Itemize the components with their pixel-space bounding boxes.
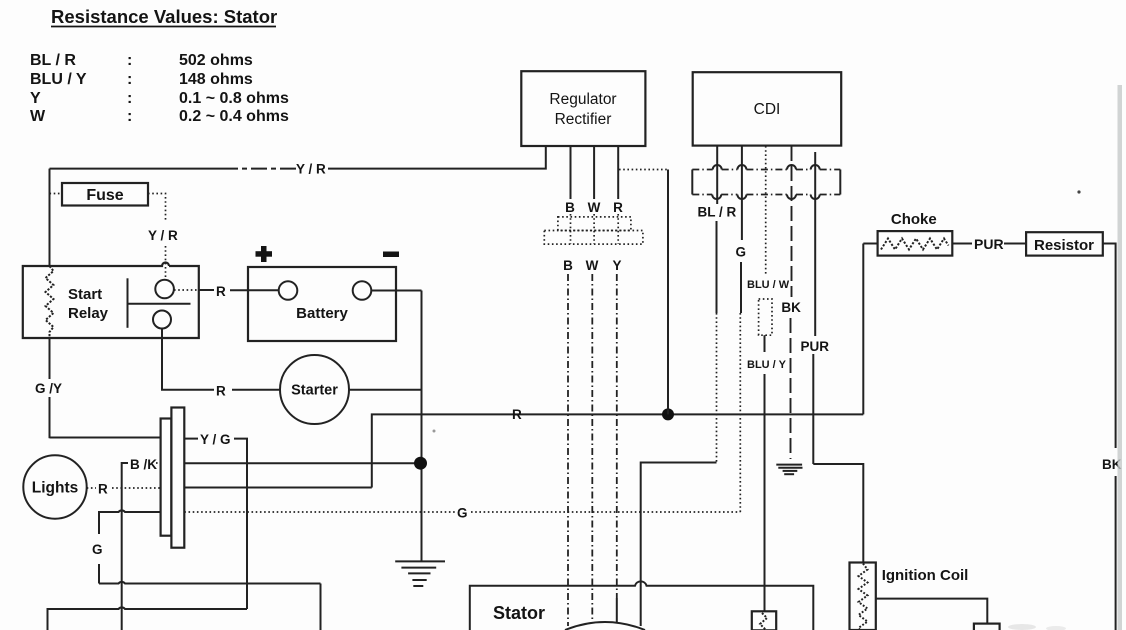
lights L1 <box>23 455 160 518</box>
svg-text:BK: BK <box>781 300 801 315</box>
wire regulator R dotted branch <box>619 170 668 415</box>
stator box <box>470 581 814 630</box>
CDI U2 <box>693 72 842 145</box>
svg-text:PUR: PUR <box>974 236 1004 252</box>
svg-text:0.1 ~ 0.8 ohms: 0.1 ~ 0.8 ohms <box>179 90 289 107</box>
svg-text:B: B <box>563 258 573 273</box>
svg-text:R: R <box>216 384 226 399</box>
svg-text:Rectifier: Rectifier <box>555 111 612 128</box>
label BK cdi <box>781 300 801 459</box>
svg-text:W: W <box>588 200 601 215</box>
svg-text:Y: Y <box>612 258 621 273</box>
svg-text:BLU / W: BLU / W <box>747 279 790 291</box>
svg-text:Starter: Starter <box>291 383 338 399</box>
svg-text:G /Y: G /Y <box>35 381 62 396</box>
svg-text:Y: Y <box>30 90 41 107</box>
wire Y/G <box>48 432 248 630</box>
svg-text:R: R <box>613 200 623 215</box>
svg-text:R: R <box>98 482 108 497</box>
CDI connector band <box>692 165 840 199</box>
key switch connector <box>161 408 185 548</box>
svg-text:Start: Start <box>68 286 102 303</box>
svg-text:W: W <box>30 108 46 125</box>
svg-text:Fuse: Fuse <box>86 187 123 204</box>
svg-text:148 ohms: 148 ohms <box>179 71 253 88</box>
svg-text::: : <box>127 71 132 88</box>
svg-text:W: W <box>586 258 599 273</box>
regulator rectifier U1 <box>521 71 645 146</box>
stator pickup component <box>752 611 776 630</box>
svg-text:BLU / Y: BLU / Y <box>30 71 87 88</box>
choke <box>863 211 1026 414</box>
fuse F1 <box>62 183 148 206</box>
svg-text:Choke: Choke <box>891 211 937 228</box>
title: Resistance Values: Stator <box>51 6 277 27</box>
wire battery to down node <box>371 291 421 562</box>
svg-text:Regulator: Regulator <box>549 91 616 108</box>
svg-text:BL / R: BL / R <box>30 52 76 69</box>
svg-text::: : <box>127 90 132 107</box>
ignition coil <box>850 563 1000 630</box>
svg-text:CDI: CDI <box>754 101 781 118</box>
resistor <box>1026 232 1122 630</box>
svg-text::: : <box>127 52 132 69</box>
svg-text:B /K: B /K <box>130 457 157 472</box>
svg-text:Resistance Values: Stator: Resistance Values: Stator <box>51 6 277 27</box>
svg-text:Y / R: Y / R <box>296 162 326 177</box>
wire B/K <box>122 457 421 630</box>
regulator connector dotted <box>544 214 643 273</box>
wire fuse stubs <box>50 194 179 280</box>
regulator pins B W R <box>565 146 623 215</box>
svg-text:R: R <box>216 284 226 299</box>
svg-text:502 ohms: 502 ohms <box>179 52 253 69</box>
wire Y/R top <box>50 146 546 177</box>
ground main <box>395 561 445 586</box>
svg-text:R: R <box>512 407 522 422</box>
label PUR + wire to ignition coil <box>801 339 864 563</box>
svg-text:Battery: Battery <box>296 305 348 322</box>
start relay K1 <box>23 263 199 339</box>
node junction dot 1 <box>662 408 674 420</box>
scan artifacts <box>433 85 1123 630</box>
svg-text:B: B <box>565 200 575 215</box>
svg-text:Y / G: Y / G <box>200 432 231 447</box>
svg-text:Relay: Relay <box>68 305 109 322</box>
svg-text:Ignition Coil: Ignition Coil <box>882 567 969 584</box>
svg-text:BLU / Y: BLU / Y <box>747 359 787 371</box>
wires B W Y to stator <box>568 274 617 626</box>
svg-text:Stator: Stator <box>493 603 545 623</box>
wire left vertical G/Y <box>35 169 161 439</box>
CDI pin wires through band <box>717 146 815 336</box>
label BLU/W + component <box>747 279 790 611</box>
svg-text:BL / R: BL / R <box>698 205 737 220</box>
svg-text:G: G <box>736 245 747 260</box>
svg-text:0.2 ~ 0.4 ohms: 0.2 ~ 0.4 ohms <box>179 108 289 125</box>
wire relay to battery R <box>174 284 279 299</box>
svg-text:Resistor: Resistor <box>1034 237 1094 254</box>
resistance table <box>30 52 289 125</box>
ground 2 <box>776 465 802 475</box>
node junction dot 2 <box>414 457 427 470</box>
svg-text:G: G <box>92 542 103 557</box>
wire G left bracket <box>92 510 321 630</box>
svg-text:PUR: PUR <box>801 339 830 354</box>
starter M1 <box>280 355 422 424</box>
wire relay to starter R <box>162 328 280 399</box>
svg-text:G: G <box>457 506 468 521</box>
battery BT1 <box>248 246 399 341</box>
svg-text:Lights: Lights <box>32 480 79 497</box>
wire long R line <box>184 407 863 488</box>
wire BL/R down <box>641 221 717 626</box>
wire G dotted long <box>184 313 740 521</box>
svg-text:Y / R: Y / R <box>148 228 178 243</box>
svg-text::: : <box>127 108 132 125</box>
